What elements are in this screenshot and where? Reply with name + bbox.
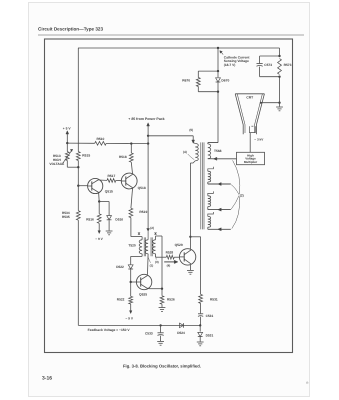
svg-text:VOLTAGE: VOLTAGE: [49, 162, 64, 166]
svg-text:3-16: 3-16: [42, 376, 52, 382]
svg-text:C573: C573: [264, 63, 272, 67]
svg-text:D524: D524: [177, 331, 185, 335]
svg-text:Circuit Description—Type 323: Circuit Description—Type 323: [38, 27, 103, 32]
svg-text:D670: D670: [221, 78, 229, 82]
svg-text:+ 5 V: + 5 V: [63, 127, 72, 131]
svg-text:R526: R526: [167, 298, 175, 302]
svg-text:− 9 V: − 9 V: [95, 237, 103, 241]
svg-text:Q515: Q515: [105, 190, 113, 194]
svg-text:R515: R515: [82, 153, 90, 157]
svg-text:R573: R573: [284, 63, 292, 67]
svg-text:C533: C533: [145, 331, 153, 335]
svg-text:Multiplier: Multiplier: [244, 160, 258, 164]
svg-text:R670: R670: [182, 78, 190, 82]
svg-text:(4): (4): [183, 150, 187, 154]
svg-text:D531: D531: [206, 334, 214, 338]
svg-text:(18.7 V): (18.7 V): [224, 63, 236, 67]
svg-text:R522: R522: [117, 298, 125, 302]
svg-text:− 3 kV: − 3 kV: [254, 138, 264, 142]
svg-text:R510: R510: [96, 137, 104, 141]
svg-text:R528: R528: [166, 250, 174, 254]
svg-text:R531: R531: [210, 297, 218, 301]
svg-text:T520: T520: [128, 244, 135, 248]
svg-text:(2): (2): [150, 226, 154, 230]
svg-text:R535: R535: [62, 215, 70, 219]
svg-text:(1): (1): [150, 263, 154, 267]
svg-text:R518: R518: [119, 155, 127, 159]
svg-text:Q525: Q525: [139, 292, 147, 296]
svg-text:Q518: Q518: [138, 186, 146, 190]
svg-text:Fig. 3-8. Blocking Oscillator,: Fig. 3-8. Blocking Oscillator, simplifie…: [123, 364, 201, 369]
svg-text:R516: R516: [86, 217, 94, 221]
svg-text:D516: D516: [115, 217, 123, 221]
svg-text:(3): (3): [155, 260, 159, 264]
svg-text:− 9 V: − 9 V: [125, 316, 133, 320]
svg-text:R519: R519: [139, 210, 147, 214]
svg-text:Feedback Voltage ≈ −150 V: Feedback Voltage ≈ −150 V: [88, 328, 131, 332]
svg-text:CRT: CRT: [246, 96, 253, 100]
svg-text:C531: C531: [206, 314, 214, 318]
svg-text:(4): (4): [167, 264, 171, 268]
svg-text:Q529: Q529: [175, 243, 183, 247]
svg-text:T568: T568: [214, 149, 222, 153]
svg-text:R517: R517: [107, 174, 115, 178]
svg-text:+ 85 from Power Pack: + 85 from Power Pack: [128, 117, 164, 121]
svg-text:D522: D522: [116, 265, 124, 269]
svg-text:(2): (2): [240, 194, 244, 198]
svg-text:(5): (5): [189, 128, 193, 132]
